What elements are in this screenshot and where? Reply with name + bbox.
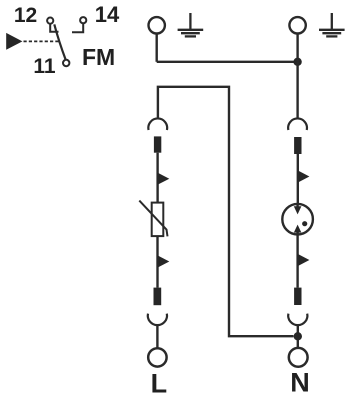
gdt upper electrode line xyxy=(296,204,298,208)
contact bracket 14 xyxy=(72,24,83,33)
junction dot top xyxy=(293,58,301,66)
wire: staple loop (L branch top to middle vertical to N bottom) xyxy=(158,87,294,336)
contact bracket 12 xyxy=(50,24,58,32)
wire: N branch from junction down xyxy=(296,62,298,118)
disconnect plug arc top N xyxy=(288,118,307,130)
wire: N bottom stem through junction xyxy=(297,326,299,348)
thermal disconnect bar N lower xyxy=(294,288,301,305)
disconnect indicator triangle L lower xyxy=(158,255,170,267)
disconnect socket arc bottom N xyxy=(288,314,307,326)
thermal disconnect bar L lower xyxy=(154,288,162,306)
svg-text:12: 12 xyxy=(14,4,37,27)
svg-text:11: 11 xyxy=(33,55,56,78)
junction dot bottom xyxy=(294,332,302,340)
contact terminal 14 xyxy=(80,17,86,23)
gdt lower electrode line xyxy=(296,231,298,235)
contact terminal 11 xyxy=(63,60,69,66)
svg-text:N: N xyxy=(290,368,310,398)
thermal disconnect bar N upper xyxy=(294,137,301,154)
wire: top horizontal to N branch xyxy=(157,61,298,63)
disconnect indicator triangle N upper xyxy=(298,170,310,182)
gdt gas-filled dot xyxy=(302,221,307,226)
wire: N branch into gas discharge tube xyxy=(297,154,299,208)
varistor body xyxy=(152,203,164,237)
svg-text:14: 14 xyxy=(95,2,120,27)
terminal circle bottom L xyxy=(148,348,166,366)
gdt upper arrowhead xyxy=(294,206,302,214)
disconnect plug arc top L xyxy=(148,118,167,130)
svg-text:FM: FM xyxy=(82,44,115,70)
ground symbol left xyxy=(178,13,204,36)
gas discharge tube circle xyxy=(282,204,313,235)
wire: L branch upper xyxy=(156,153,158,203)
remote indication arrow (signal output) xyxy=(6,33,22,50)
dashed actuation line xyxy=(24,40,61,42)
varistor diagonal stroke xyxy=(139,201,167,237)
wire: L branch lower xyxy=(156,236,158,288)
svg-text:L: L xyxy=(151,369,168,398)
ground symbol right xyxy=(319,13,345,36)
changeover switch lever FM xyxy=(54,24,65,59)
terminal circle bottom N xyxy=(289,348,308,367)
terminal circle top right xyxy=(289,17,305,33)
terminal circle top left xyxy=(149,17,165,33)
disconnect indicator triangle L upper xyxy=(158,173,170,185)
wire: top-left terminal down xyxy=(155,34,157,62)
wire: top-right terminal down to junction xyxy=(296,34,298,62)
disconnect socket arc bottom L xyxy=(148,314,167,326)
gdt lower arrowhead xyxy=(294,225,302,233)
thermal disconnect bar L upper xyxy=(154,136,161,152)
wire: L bottom stem xyxy=(156,326,158,349)
contact terminal 12 xyxy=(47,18,53,24)
wire: N branch below gdt xyxy=(296,235,298,288)
disconnect indicator triangle N lower xyxy=(298,254,310,266)
